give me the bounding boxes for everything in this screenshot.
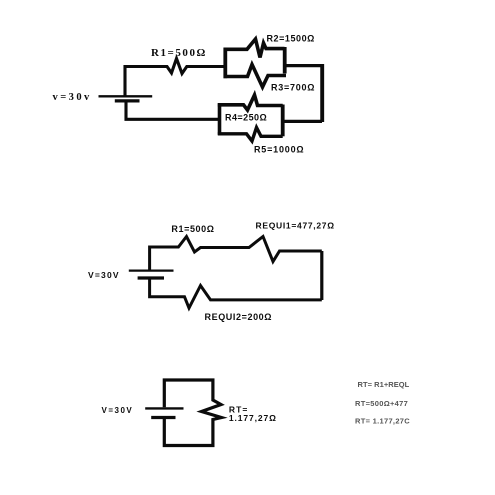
svg-text:R4=250Ω: R4=250Ω <box>225 113 267 123</box>
svg-text:RT= 1.177,27C: RT= 1.177,27C <box>355 417 410 426</box>
svg-text:V=30V: V=30V <box>88 270 120 280</box>
svg-text:R3=700Ω: R3=700Ω <box>271 83 315 93</box>
svg-text:R1=500Ω: R1=500Ω <box>151 47 207 59</box>
svg-text:R1=500Ω: R1=500Ω <box>171 224 214 234</box>
svg-text:RT=500Ω+477: RT=500Ω+477 <box>355 399 408 408</box>
svg-text:V=30V: V=30V <box>102 406 134 415</box>
svg-text:v=30v: v=30v <box>53 92 92 103</box>
svg-text:1.177,27Ω: 1.177,27Ω <box>229 413 277 423</box>
svg-text:R2=1500Ω: R2=1500Ω <box>267 34 315 44</box>
svg-text:REQUI1=477,27Ω: REQUI1=477,27Ω <box>256 221 335 231</box>
svg-text:REQUI2=200Ω: REQUI2=200Ω <box>205 312 273 322</box>
svg-text:RT= R1+REQL: RT= R1+REQL <box>358 380 410 389</box>
svg-text:R5=1000Ω: R5=1000Ω <box>254 145 304 155</box>
